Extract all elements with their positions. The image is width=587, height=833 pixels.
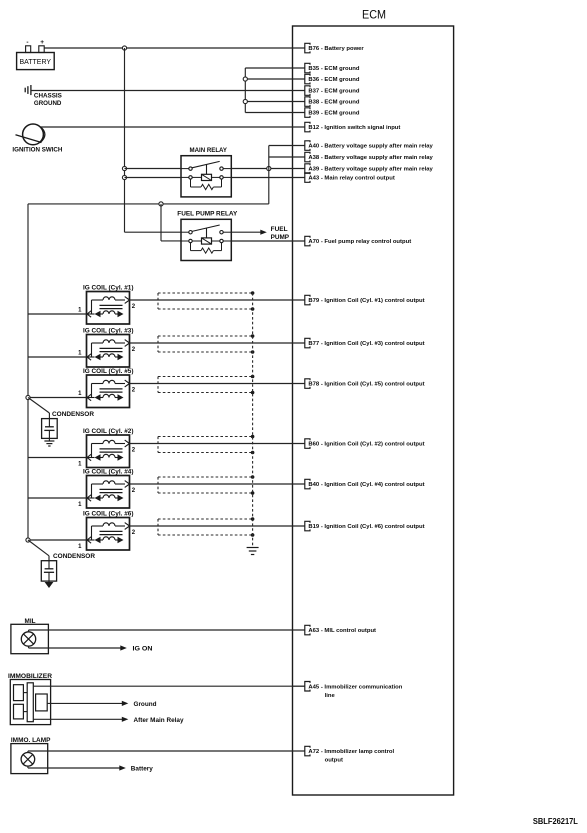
label CONDENSOR 1 xyxy=(52,411,95,418)
ECM pin B78 xyxy=(293,379,425,389)
node supply bus A39 xyxy=(267,166,271,170)
ignition coil T5 (Cyl. #5) xyxy=(87,375,130,408)
wire immo lamp to A72 xyxy=(28,751,305,753)
svg-text:IG COIL (Cyl. #2): IG COIL (Cyl. #2) xyxy=(83,429,134,435)
wire bus to B38 xyxy=(245,101,304,103)
ECM pin B60 xyxy=(293,439,425,449)
shield junction dots coil #1 xyxy=(251,291,255,311)
svg-text:SBLF26217L: SBLF26217L xyxy=(533,817,578,826)
label pin 2 of coil #4 xyxy=(132,488,136,494)
label FUEL PUMP RELAY xyxy=(177,211,238,218)
ignition coil T1 (Cyl. #1) xyxy=(87,292,130,325)
wire chassis ground to ECM ground bus xyxy=(31,90,245,92)
shield dashed box coil #1 xyxy=(158,293,253,309)
condensor C2 xyxy=(28,540,57,588)
ECM pin B39 xyxy=(293,108,360,118)
wire battery to B76 xyxy=(44,47,305,49)
shield junction dots coil #2 xyxy=(251,435,255,455)
svg-text:A40 - Battery voltage supply a: A40 - Battery voltage supply after main … xyxy=(308,144,433,150)
ignition coil T3 (Cyl. #3) xyxy=(87,335,130,368)
wire feed to main relay switch xyxy=(125,168,182,170)
wire bus to coil #2 pin 1 xyxy=(28,457,87,459)
wire MIL to A63 xyxy=(29,630,305,632)
svg-text:PUMP: PUMP xyxy=(271,234,290,241)
ECM pin B19 xyxy=(293,521,425,531)
label Ground xyxy=(134,702,157,708)
label pin 2 of coil #3 xyxy=(132,347,136,353)
wire bus to coil #6 pin 1 xyxy=(28,539,87,541)
wire immobilizer to After Main Relay arrow xyxy=(33,717,128,722)
svg-text:FUEL PUMP RELAY: FUEL PUMP RELAY xyxy=(177,211,238,218)
node main relay coil tap xyxy=(122,175,126,179)
ECM pin A72 xyxy=(293,746,395,763)
svg-text:A39 - Battery voltage supply a: A39 - Battery voltage supply after main … xyxy=(308,167,433,173)
svg-text:B38 - ECM ground: B38 - ECM ground xyxy=(308,100,359,106)
svg-text:IG COIL (Cyl. #1): IG COIL (Cyl. #1) xyxy=(83,285,134,291)
wire bus to B39 xyxy=(245,112,304,114)
svg-text:B77 - Ignition Coil (Cyl. #3): B77 - Ignition Coil (Cyl. #3) control ou… xyxy=(308,341,424,347)
label SBLF26217L xyxy=(533,817,578,826)
svg-text:B76 - Battery power: B76 - Battery power xyxy=(308,46,364,52)
svg-text:BATTERY: BATTERY xyxy=(20,59,52,66)
ECM pin B76 xyxy=(293,43,365,53)
ignition coil T6 (Cyl. #6) xyxy=(87,518,130,551)
ECM pin A45 xyxy=(293,682,403,699)
shield junction dots coil #3 xyxy=(251,334,255,354)
wire ignition switch to B12 xyxy=(41,126,305,128)
svg-text:IGNITION SWICH: IGNITION SWICH xyxy=(12,147,63,154)
wire main relay switch output to A39 xyxy=(231,168,304,170)
battery BT1 xyxy=(17,39,55,70)
label MIL xyxy=(25,619,36,625)
main relay K1 xyxy=(181,156,231,197)
label IG ON xyxy=(133,646,153,652)
label IG COIL (Cyl. #5) xyxy=(83,369,134,375)
wire coil #4 pin 2 to B40 xyxy=(130,483,305,485)
wire tap down to fuel pump relay coil xyxy=(161,204,181,241)
ECM pin A38 xyxy=(293,152,434,162)
chassis ground symbol xyxy=(25,85,62,107)
wire coil #3 pin 2 to B77 xyxy=(130,342,305,344)
svg-text:ECM: ECM xyxy=(362,7,386,21)
wire coil #6 pin 2 to B19 xyxy=(130,525,305,527)
svg-text:B78 - Ignition Coil (Cyl. #5): B78 - Ignition Coil (Cyl. #5) control ou… xyxy=(308,382,424,388)
wire coil #5 pin 2 to B78 xyxy=(130,383,305,385)
wire bus to coil #5 pin 1 xyxy=(28,397,87,399)
svg-text:IMMO. LAMP: IMMO. LAMP xyxy=(11,737,51,744)
wire immobilizer to Ground arrow xyxy=(47,701,128,706)
svg-text:B37 - ECM ground: B37 - ECM ground xyxy=(308,89,359,95)
node ground bus B38 xyxy=(243,99,247,103)
label IMMOBILIZER xyxy=(8,673,53,680)
shield dashed box coil #3 xyxy=(158,336,253,352)
svg-text:IMMOBILIZER: IMMOBILIZER xyxy=(8,673,53,680)
wire main relay coil output to A43 xyxy=(231,177,304,179)
ECM pin B35 xyxy=(293,63,360,73)
svg-text:IG COIL (Cyl. #4): IG COIL (Cyl. #4) xyxy=(83,469,134,475)
svg-text:A38 - Battery voltage supply a: A38 - Battery voltage supply after main … xyxy=(308,155,433,161)
svg-text:Ground: Ground xyxy=(134,702,157,708)
node battery feed junction xyxy=(122,46,126,50)
svg-text:CHASSIS: CHASSIS xyxy=(34,93,62,100)
svg-text:IG COIL (Cyl. #6): IG COIL (Cyl. #6) xyxy=(83,511,134,517)
svg-text:B39 - ECM ground: B39 - ECM ground xyxy=(308,111,359,117)
label MAIN RELAY xyxy=(190,147,228,154)
wire immo lamp to Battery arrow xyxy=(28,765,126,770)
label pin 1 of coil #1 xyxy=(78,307,82,313)
shield junction dots coil #4 xyxy=(251,475,255,495)
svg-text:B60 - Ignition Coil (Cyl. #2): B60 - Ignition Coil (Cyl. #2) control ou… xyxy=(308,442,424,448)
svg-text:line: line xyxy=(325,693,336,699)
svg-text:CONDENSOR: CONDENSOR xyxy=(53,553,96,560)
left supply bus vertical xyxy=(27,204,29,540)
ECM pin B38 xyxy=(293,97,360,107)
label pin 2 of coil #5 xyxy=(132,388,136,394)
wire coil #1 pin 2 to B79 xyxy=(130,299,305,301)
label pin 2 of coil #1 xyxy=(132,304,136,310)
label FUEL PUMP xyxy=(271,226,290,241)
ECM ground bus vertical xyxy=(244,68,246,113)
ECM pin A63 xyxy=(293,625,377,635)
svg-text:A63 - MIL control output: A63 - MIL control output xyxy=(308,628,376,634)
fuel pump relay K2 xyxy=(181,219,231,260)
svg-text:GROUND: GROUND xyxy=(34,100,62,107)
ECM pin B79 xyxy=(293,295,425,305)
node ground bus B36 xyxy=(243,77,247,81)
shield ground dashed bus xyxy=(252,293,254,547)
wire bus to B37 xyxy=(245,90,304,92)
wire bus to B36 xyxy=(245,78,304,80)
label IG COIL (Cyl. #2) xyxy=(83,429,134,435)
label IG COIL (Cyl. #3) xyxy=(83,328,134,334)
svg-text:IG COIL (Cyl. #5): IG COIL (Cyl. #5) xyxy=(83,369,134,375)
svg-text:-: - xyxy=(26,39,28,46)
wire fuel pump relay coil output to A70 xyxy=(231,240,304,242)
condensor C1 xyxy=(28,398,57,447)
label pin 1 of coil #2 xyxy=(78,462,82,468)
MIL lamp L1 xyxy=(11,624,49,653)
node coil5/condensor junction xyxy=(26,395,30,399)
svg-text:B35 - ECM ground: B35 - ECM ground xyxy=(308,66,359,72)
label CONDENSOR 2 xyxy=(53,553,96,560)
supply bus vertical xyxy=(268,146,270,204)
node fuel pump relay coil tap xyxy=(159,202,163,206)
after-main-relay supply bus horizontal xyxy=(28,203,269,205)
wire bus to coil #4 pin 1 xyxy=(28,497,87,499)
wire supply bus to A40 xyxy=(269,145,305,147)
svg-text:Battery: Battery xyxy=(131,766,154,772)
label Battery xyxy=(131,766,154,772)
svg-text:B19 - Ignition Coil (Cyl. #6): B19 - Ignition Coil (Cyl. #6) control ou… xyxy=(308,524,424,530)
wire coil #2 pin 2 to B60 xyxy=(130,443,305,445)
label IG COIL (Cyl. #1) xyxy=(83,285,134,291)
svg-text:B40 - Ignition Coil (Cyl. #4): B40 - Ignition Coil (Cyl. #4) control ou… xyxy=(308,482,424,488)
ECM pin B77 xyxy=(293,338,425,348)
wire supply bus to A38 xyxy=(269,156,305,158)
wire battery feed to fuel pump relay switch xyxy=(125,231,182,233)
label IG COIL (Cyl. #4) xyxy=(83,469,134,475)
shield junction dots coil #6 xyxy=(251,517,255,537)
label IG COIL (Cyl. #6) xyxy=(83,511,134,517)
svg-text:output: output xyxy=(325,758,343,764)
svg-text:IG ON: IG ON xyxy=(133,646,153,652)
ECM box U1 xyxy=(293,26,454,795)
immobilizer unit xyxy=(10,680,50,725)
shield dashed box coil #2 xyxy=(158,437,253,453)
ECM pin A70 xyxy=(293,236,412,246)
shield dashed box coil #4 xyxy=(158,477,253,493)
svg-text:CONDENSOR: CONDENSOR xyxy=(52,411,95,418)
label pin 1 of coil #3 xyxy=(78,350,82,356)
svg-text:FUEL: FUEL xyxy=(271,226,288,233)
shield dashed box coil #5 xyxy=(158,377,253,393)
label pin 1 of coil #5 xyxy=(78,391,82,397)
svg-text:IG COIL (Cyl. #3): IG COIL (Cyl. #3) xyxy=(83,328,134,334)
svg-text:B12 - Ignition switch signal i: B12 - Ignition switch signal input xyxy=(308,125,400,131)
svg-text:A45 - Immobilizer communicatio: A45 - Immobilizer communication xyxy=(308,684,402,690)
label After Main Relay xyxy=(134,718,185,724)
ECM pin B40 xyxy=(293,479,425,489)
ECM pin A43 xyxy=(293,173,395,183)
label ECM xyxy=(362,7,386,21)
wire feed to main relay coil xyxy=(125,177,182,179)
ground shield bus xyxy=(247,548,259,555)
svg-text:A43 - Main relay control outpu: A43 - Main relay control output xyxy=(308,176,394,182)
ECM pin B37 xyxy=(293,86,360,96)
svg-text:+: + xyxy=(40,39,44,46)
ECM pin B36 xyxy=(293,74,360,84)
label IMMO. LAMP xyxy=(11,737,51,744)
ECM pin A39 xyxy=(293,164,434,174)
svg-text:A70 - Fuel pump relay control: A70 - Fuel pump relay control output xyxy=(308,239,411,245)
label pin 2 of coil #6 xyxy=(132,530,136,536)
svg-text:After Main Relay: After Main Relay xyxy=(134,718,185,724)
svg-text:B36 - ECM ground: B36 - ECM ground xyxy=(308,77,359,83)
ignition coil T4 (Cyl. #4) xyxy=(87,476,130,509)
node main relay switch tap xyxy=(122,166,126,170)
wire bus to B35 xyxy=(245,67,304,69)
ignition switch S1 xyxy=(12,124,63,154)
wire bus to coil #1 pin 1 xyxy=(28,313,87,315)
immobilizer lamp L2 xyxy=(11,744,48,774)
node coil6/condensor junction xyxy=(26,538,30,542)
ECM pin B12 xyxy=(293,122,401,132)
label pin 1 of coil #4 xyxy=(78,502,82,508)
wire bus to coil #3 pin 1 xyxy=(28,356,87,358)
svg-text:MIL: MIL xyxy=(25,619,36,625)
svg-text:B79 - Ignition Coil (Cyl. #1): B79 - Ignition Coil (Cyl. #1) control ou… xyxy=(308,298,424,304)
label pin 2 of coil #2 xyxy=(132,448,136,454)
shield dashed box coil #6 xyxy=(158,519,253,535)
wire immobilizer to A45 xyxy=(33,685,305,687)
ECM pin A40 xyxy=(293,141,434,151)
svg-text:A72 - Immobilizer lamp control: A72 - Immobilizer lamp control xyxy=(308,749,394,755)
wire fuel pump relay switch output arrow xyxy=(231,230,266,235)
shield junction dots coil #5 xyxy=(251,375,255,395)
wire battery feed vertical xyxy=(124,48,126,232)
wire MIL to IG ON arrow xyxy=(29,645,127,650)
ignition coil T2 (Cyl. #2) xyxy=(87,435,130,468)
svg-text:MAIN RELAY: MAIN RELAY xyxy=(190,147,228,154)
label pin 1 of coil #6 xyxy=(78,544,82,550)
